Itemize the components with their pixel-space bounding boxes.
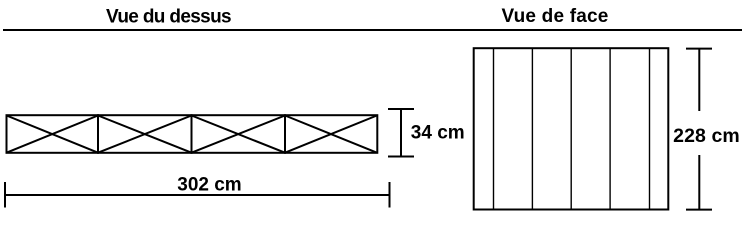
X brace section 4 diagonal down [285,116,377,153]
X brace section 3 diagonal up [192,116,286,153]
svg-text:34 cm: 34 cm [411,122,465,143]
svg-text:Vue de face: Vue de face [501,6,608,27]
front view panel line 3 [570,48,572,209]
X brace section 4 diagonal up [285,116,377,153]
X brace section 3 diagonal down [192,116,286,153]
top view divider 1 [97,114,99,154]
front view panel line 2 [531,48,533,209]
svg-text:302 cm: 302 cm [177,175,241,196]
dimension 302 cm line [5,194,390,196]
dimension 34 cm line [400,109,402,157]
svg-text:Vue du dessus: Vue du dessus [106,7,231,28]
front view panel line 5 [649,48,651,209]
top view divider 2 [191,114,193,154]
dimension 302 cm right tick [389,182,391,208]
X brace section 2 diagonal up [98,116,192,153]
front view outline [474,48,669,209]
svg-text:228 cm: 228 cm [673,125,740,147]
top view outline [7,115,378,153]
dimension 228 cm line upper segment [698,49,700,111]
dimension 34 cm bottom cap [388,156,414,158]
X brace section 1 diagonal down [7,116,99,153]
front view panel line 4 [609,48,611,209]
X brace section 1 diagonal up [7,116,99,153]
top view divider 3 [284,114,286,154]
dimension 228 cm line lower segment [698,155,700,210]
X brace section 2 diagonal down [98,116,192,153]
header rule [3,29,742,31]
dimension 228 cm top cap [686,48,712,50]
dimension 228 cm bottom cap [686,209,712,211]
front view panel line 1 [493,48,495,209]
dimension 34 cm top cap [388,108,414,110]
dimension 302 cm left tick [4,182,6,208]
